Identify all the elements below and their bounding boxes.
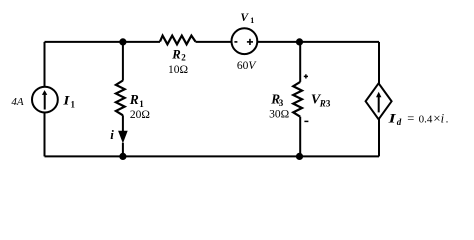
svg-text:I: I — [62, 93, 70, 108]
svg-text:R: R — [129, 92, 139, 107]
svg-text:1: 1 — [71, 100, 76, 110]
svg-text:V: V — [240, 12, 249, 24]
svg-text:.: . — [446, 114, 449, 126]
svg-text:=: = — [407, 112, 414, 126]
svg-text:i: i — [441, 112, 445, 126]
svg-text:30Ω: 30Ω — [269, 108, 289, 120]
svg-text:20Ω: 20Ω — [130, 109, 150, 121]
svg-text:10Ω: 10Ω — [168, 64, 188, 76]
svg-text:I: I — [387, 111, 397, 126]
svg-text:×: × — [433, 111, 440, 126]
svg-text:60V: 60V — [237, 60, 258, 72]
svg-text:R: R — [171, 47, 180, 61]
svg-text:0.4: 0.4 — [419, 114, 433, 126]
svg-text:1: 1 — [139, 99, 144, 109]
svg-text:2: 2 — [181, 53, 186, 63]
svg-text:3: 3 — [279, 98, 284, 108]
svg-text:d: d — [397, 117, 402, 127]
svg-text:R3: R3 — [319, 98, 331, 108]
svg-text:1: 1 — [250, 16, 254, 25]
svg-text:4A: 4A — [11, 96, 24, 108]
svg-text:i: i — [110, 127, 114, 142]
